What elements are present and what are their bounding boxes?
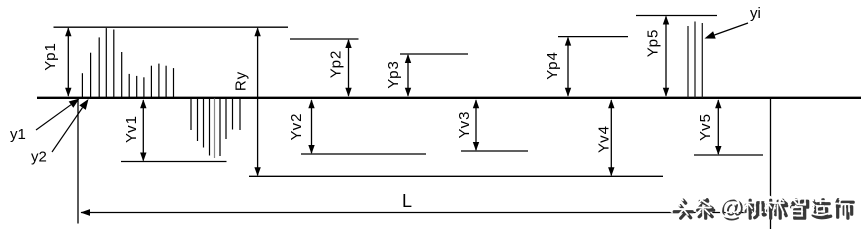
Ry bottom reference line [249, 175, 663, 177]
Yp1 dimension arrow [65, 27, 71, 97]
Yp4 label [544, 51, 561, 80]
Yp2 label [328, 50, 345, 79]
Yv2 dimension arrow [308, 99, 314, 154]
svg-text:Yv3: Yv3 [456, 110, 473, 138]
svg-text:Yp2: Yp2 [328, 50, 345, 79]
y1 label [10, 126, 26, 143]
Yp1 label [42, 42, 59, 71]
Yp5 label [645, 29, 662, 58]
svg-text:Yp3: Yp3 [385, 60, 402, 89]
Yv2 label [288, 112, 305, 140]
right extension line of L [770, 98, 772, 229]
Yp5 top reference line [636, 15, 717, 17]
Yv3 dimension arrow [473, 99, 479, 151]
svg-text:Yv4: Yv4 [596, 125, 613, 153]
yi leader arrow to peak group 5 [705, 23, 749, 39]
Yv5 label [697, 113, 714, 141]
L label [402, 191, 412, 211]
Yv5 dimension arrow [715, 99, 721, 155]
svg-text:Yp1: Yp1 [42, 42, 59, 71]
left extension line of L [77, 97, 79, 224]
y1 leader arrow to mean line [36, 99, 80, 131]
Yv4 dimension arrow (down to Ry bottom line) [608, 99, 614, 176]
Yv2 bottom reference line [301, 153, 426, 155]
top reference line for Yp1 and Ry [54, 26, 289, 28]
svg-text:Yv5: Yv5 [697, 113, 714, 141]
watermark 头条@机械智造师 (embossed) [672, 194, 854, 224]
Yv1 bottom reference line [121, 161, 227, 163]
Yp3 label [385, 60, 402, 89]
Yv3 bottom reference line [461, 150, 528, 152]
svg-text:Yp5: Yp5 [645, 29, 662, 58]
svg-text:Yp4: Yp4 [544, 51, 561, 80]
Yp2 top reference line [290, 38, 359, 40]
Yv5 bottom reference line [694, 154, 763, 156]
svg-text:y2: y2 [31, 149, 47, 166]
svg-text:Yv2: Yv2 [288, 112, 305, 140]
Yp2 dimension arrow [345, 39, 351, 97]
svg-text:Yv1: Yv1 [123, 115, 140, 143]
Yp4 top reference line [558, 36, 628, 38]
profile peak group 1 comb lines [82, 28, 173, 97]
Ry dimension arrow [254, 27, 260, 176]
y2 label [31, 149, 47, 166]
Yv1 dimension arrow [140, 99, 146, 161]
Yp3 top reference line [400, 53, 468, 55]
Yp5 dimension arrow [663, 16, 669, 97]
svg-text:@: @ [718, 194, 741, 221]
svg-text:yi: yi [750, 5, 761, 22]
Yv4 label [596, 125, 613, 153]
Yp4 dimension arrow [565, 37, 571, 97]
mean line (profile center line) [37, 97, 861, 99]
L dimension line with arrows [81, 209, 768, 216]
profile valley group 1 comb lines [191, 99, 240, 159]
Yv3 label [456, 110, 473, 138]
Yp3 dimension arrow [405, 54, 411, 97]
profile peak group 5 comb lines (near yi) [688, 22, 702, 98]
svg-text:Ry: Ry [233, 71, 250, 91]
Yv1 label [123, 115, 140, 143]
svg-text:y1: y1 [10, 126, 26, 143]
svg-text:L: L [402, 191, 412, 211]
yi label [750, 5, 761, 22]
y2 leader arrow to mean line [52, 99, 89, 152]
Ry label [233, 71, 250, 91]
